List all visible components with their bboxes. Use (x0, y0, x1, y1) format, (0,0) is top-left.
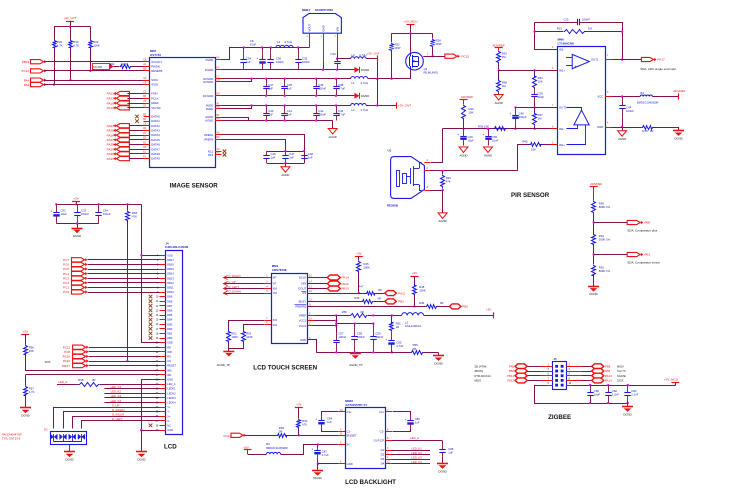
capacitor C41 1uF (284, 106, 286, 114)
ground AGND (PIR) (442, 190, 444, 213)
pin 1 VCC2 (308, 325, 314, 327)
resistor R38 1M (498, 70, 500, 79)
svg-text:D_RIGHT: D_RIGHT (112, 413, 125, 417)
pin 33 LEDK4 (160, 402, 166, 404)
svg-text:PC11: PC11 (63, 345, 71, 349)
svg-text:D2: D2 (44, 428, 48, 432)
svg-text:LED_A: LED_A (167, 382, 175, 386)
wire GND pin to bottom rail (308, 340, 317, 353)
svg-text:PWDN: PWDN (151, 65, 160, 69)
svg-text:F_UP: F_UP (112, 403, 119, 407)
wire DOVDD row C1 (222, 78, 351, 80)
pin C4 SIOC (144, 80, 150, 82)
svg-text:C23: C23 (563, 17, 569, 21)
svg-text:IN2-: IN2- (559, 127, 564, 131)
svg-text:AGND: AGND (484, 153, 492, 157)
svg-text:ADVREF: ADVREF (461, 95, 473, 99)
resistor R59 0R (EN) (244, 435, 276, 437)
wire R36 to IN2- row (463, 120, 465, 129)
wire drain to +3V_MCU (410, 33, 412, 52)
svg-text:X-: X- (167, 419, 170, 423)
power +5V (touch) (493, 312, 495, 318)
pin 5 DB14 (160, 273, 166, 275)
pin C3 HREF (144, 103, 150, 105)
pin 37 X- (160, 420, 166, 422)
svg-text:DGND: DGND (589, 292, 597, 296)
pin 24 CS (160, 361, 166, 363)
port PA11 (385, 291, 397, 296)
svg-text:DATA7: DATA7 (151, 147, 160, 151)
pin 27 IM1 (160, 374, 166, 376)
wire OUT2 row (515, 107, 557, 109)
port PB2 (zigbee left) (527, 371, 540, 373)
pin 4 DB15 (160, 269, 166, 271)
svg-text:VDD: VDD (167, 253, 173, 257)
svg-text:ZIGBEE: ZIGBEE (548, 414, 571, 421)
resistor R36 10K (462, 105, 466, 121)
wire R54 to EN row (298, 429, 300, 435)
svg-text:D_DOWN: D_DOWN (229, 289, 241, 293)
svg-text:IM0: IM0 (167, 368, 172, 372)
svg-text:PC1: PC1 (63, 286, 69, 290)
svg-text:GND: GND (597, 125, 603, 129)
wire DGND row F3 (222, 69, 355, 71)
capacitor C86 1uF (OUT) (442, 441, 444, 445)
svg-text:PB2: PB2 (509, 369, 515, 373)
svg-text:DGND: DGND (205, 68, 213, 72)
svg-text:+3V: +3V (73, 197, 78, 201)
wire feedback left vertical (535, 23, 558, 50)
pin 23 RS (160, 356, 166, 358)
port PA13 (DOUT) (308, 288, 328, 290)
resistor R58 0R (LED_A) (57, 384, 78, 386)
wire F_UP net (touch panel) (54, 408, 160, 429)
capacitor C44 100nF (622, 97, 624, 106)
svg-text:AVDD: AVDD (206, 107, 214, 111)
ground AGND_TP (touch caps) (350, 353, 361, 355)
svg-text:VCC: VCC (597, 95, 603, 99)
svg-text:100nF: 100nF (81, 212, 89, 216)
svg-text:DB5: DB5 (167, 313, 173, 317)
svg-text:FH26-39S-0.3SHW: FH26-39S-0.3SHW (165, 245, 189, 249)
svg-text:PA23: PA23 (107, 97, 114, 101)
svg-text:10K: 10K (531, 148, 536, 152)
pin D3 DATA7 (144, 149, 150, 151)
svg-text:LED_K4: LED_K4 (411, 460, 422, 464)
pin 13 DB6 (160, 310, 166, 312)
inductor L3 4.7uH (VIN feed) (337, 58, 351, 60)
svg-text:SDA, Comparator plus: SDA, Comparator plus (627, 229, 658, 233)
svg-text:PA21: PA21 (107, 92, 114, 96)
pin B2 VREFN (215, 139, 222, 141)
svg-text:GND: GND (300, 338, 306, 342)
svg-text:PB1: PB1 (645, 253, 651, 257)
pin 2 D2 (386, 454, 392, 456)
pin 30 LEDK1 (160, 388, 166, 390)
pin 31 LEDK2 (160, 393, 166, 395)
capacitor C38 4.7uF (336, 79, 338, 86)
svg-text:BMD3C314K500R: BMD3C314K500R (266, 446, 287, 450)
svg-text:DATA3: DATA3 (151, 129, 160, 133)
svg-text:VIN: VIN (335, 27, 339, 32)
capacitor C39 100nF (VIN) (337, 59, 339, 62)
pin 5 IN (339, 444, 345, 446)
pin 4 right (566, 371, 572, 373)
svg-text:NC: NC (167, 424, 171, 428)
svg-text:RE200B: RE200B (387, 204, 399, 208)
svg-text:LED_K3: LED_K3 (111, 394, 122, 398)
svg-text:VREFH: VREFH (204, 133, 213, 137)
pin B1 AGND (215, 117, 222, 119)
svg-text:DB17: DB17 (167, 258, 174, 262)
pin 39 GND (160, 430, 166, 432)
svg-text:DOUT: DOUT (298, 287, 306, 291)
svg-text:RESETB: RESETB (151, 69, 162, 73)
svg-text:BMD3C314K500R: BMD3C314K500R (637, 101, 658, 105)
power +3V (R54) (295, 407, 303, 409)
svg-text:CS: CS (302, 291, 306, 295)
svg-text:4.7K: 4.7K (57, 43, 63, 47)
svg-text:SC82FP1562: SC82FP1562 (315, 8, 333, 12)
svg-text:VDD: VDD (167, 341, 173, 345)
resistor R30 4.7K (70, 27, 72, 40)
pin 7 C2+ (386, 411, 392, 413)
resistor R43 47K (442, 171, 444, 174)
svg-text:DOGND: DOGND (203, 94, 213, 98)
pin 7 IN3 (265, 320, 271, 322)
capacitor C36 100nF (270, 48, 272, 60)
svg-text:DB13: DB13 (167, 276, 174, 280)
svg-text:R49: R49 (419, 301, 425, 305)
pin 1 (PIR drain) (424, 162, 430, 164)
svg-text:PA14: PA14 (342, 276, 349, 280)
pin D2 DATA3 (144, 130, 150, 132)
resistor R55 0R (gnd tie) (411, 351, 424, 355)
capacitor C40 1uF (266, 106, 268, 114)
svg-text:PC4: PC4 (63, 272, 69, 276)
pin 11 EN/SET (339, 435, 345, 437)
pin 9 DB10 (160, 292, 166, 294)
pin B5 DATA0 (144, 116, 150, 118)
port PB1 (comparator minus) (641, 253, 644, 256)
wire LED_K1 (backlight) (392, 450, 430, 452)
wire IN3 to R52 (229, 321, 265, 330)
port PA17 (654, 58, 657, 61)
pin 11 DB8 (160, 301, 166, 303)
wire R29 to SIOD net (54, 49, 56, 84)
pin 10 VCC1 (308, 320, 314, 322)
wire VOUT to rail (309, 38, 311, 48)
pin 1 OUT1 (605, 59, 611, 61)
svg-text:PB13: PB13 (22, 60, 30, 64)
pin 12 DOUT (308, 288, 314, 290)
capacitor C37 1uF (266, 79, 268, 86)
pin 38 NC (160, 425, 166, 427)
capacitor C84 1uF (C1 pump) (322, 412, 339, 416)
wire D_LEFT net (touch inputs) (224, 288, 265, 290)
ground AGND (C50) (484, 147, 493, 153)
ferrite B1 BMD3C314K500R (640, 95, 652, 97)
pin C6 DOVDD (215, 81, 222, 83)
svg-text:B3: B3 (266, 442, 270, 446)
svg-text:10uF: 10uF (61, 212, 68, 216)
svg-text:DGND: DGND (65, 458, 73, 462)
ground DGND (sensor row2) (354, 93, 359, 99)
svg-text:OUT/CP: OUT/CP (374, 438, 385, 442)
svg-text:4.7uF: 4.7uF (338, 87, 345, 91)
svg-text:PB2: PB2 (398, 300, 404, 304)
svg-text:PB14: PB14 (507, 374, 514, 378)
svg-text:AGND: AGND (495, 101, 503, 105)
svg-text:VREF: VREF (299, 314, 307, 318)
port PA9 (zigbee right) (572, 371, 581, 373)
svg-text:C39: C39 (331, 52, 337, 56)
pin 35 Y- (160, 411, 166, 413)
wire VREF cap column (336, 315, 338, 331)
pin F3 DGND (215, 69, 222, 71)
svg-text:CS: CS (167, 359, 171, 363)
pin 3 D1 (386, 450, 392, 452)
svg-text:X+: X+ (167, 414, 171, 418)
svg-text:FSIN: FSIN (151, 92, 157, 96)
pin 6 C2- (386, 431, 392, 433)
svg-text:PC12: PC12 (223, 434, 231, 438)
port PA12 (zigbee left) (527, 380, 540, 382)
svg-text:LEDK4: LEDK4 (167, 401, 176, 405)
svg-text:PA25: PA25 (107, 129, 114, 133)
pin 10 C1+ (339, 411, 345, 413)
pin 9 VREF (308, 315, 314, 317)
svg-text:0R: 0R (279, 430, 283, 434)
svg-text:100K: 100K (363, 266, 370, 270)
wire L3 to +5V (424, 315, 494, 317)
svg-text:DB1: DB1 (167, 332, 173, 336)
svg-text:PA17: PA17 (658, 58, 665, 62)
svg-text:1M: 1M (588, 26, 593, 30)
svg-text:R46: R46 (354, 296, 360, 300)
wire VREF cap top rail (267, 151, 304, 153)
svg-text:PA13: PA13 (605, 374, 612, 378)
svg-text:DB15: DB15 (167, 267, 174, 271)
svg-text:PC6: PC6 (63, 263, 69, 267)
svg-text:32CK: 32CK (617, 379, 624, 383)
inductor L3 10uH/100mA (402, 313, 424, 316)
svg-text:10uH/100mA: 10uH/100mA (405, 324, 421, 328)
power +3V_OVT tick (L2) (396, 102, 398, 108)
svg-text:0R: 0R (377, 297, 381, 301)
svg-text:DATA9: DATA9 (151, 157, 160, 161)
pin 1 D3 (386, 459, 392, 461)
capacitor C60 4.7uF (391, 332, 393, 341)
svg-text:PC10: PC10 (63, 355, 71, 359)
pin 15 CS (308, 293, 314, 295)
resistor R33 1M (497, 51, 501, 65)
wire GND to DGND row (323, 38, 325, 64)
svg-text:AGND: AGND (618, 137, 626, 141)
svg-text:DB6: DB6 (167, 309, 173, 313)
svg-text:47K: 47K (132, 215, 137, 219)
svg-text:100nF: 100nF (318, 87, 326, 91)
wire gate to PC15 (423, 56, 445, 58)
svg-text:4.7uF: 4.7uF (396, 344, 403, 348)
svg-text:PB0: PB0 (462, 305, 468, 309)
wire source to +3V_OVT (410, 70, 412, 79)
svg-text:DB2: DB2 (167, 327, 173, 331)
pin C6 DATA2 (144, 125, 150, 127)
svg-text:DGND: DGND (361, 94, 369, 98)
power +3V_OVT (image sensor pullups) (66, 21, 74, 23)
svg-text:ZB 14TNK: ZB 14TNK (475, 364, 487, 368)
pin 3 IN1+ (551, 70, 557, 72)
pin E3 DATA5 (144, 139, 150, 141)
pin 4 GND (339, 463, 345, 465)
svg-text:PA27: PA27 (107, 138, 114, 142)
svg-text:866K 1%: 866K 1% (599, 269, 611, 273)
pin 29 LED_A (160, 384, 166, 386)
svg-text:+3V_OVT: +3V_OVT (367, 52, 380, 56)
ground AGND (AVDD caps) (332, 121, 334, 129)
pin 9 C1- (339, 431, 345, 433)
svg-text:L4: L4 (277, 40, 281, 44)
svg-text:AGND: AGND (329, 135, 337, 139)
resistor R63 100K (90, 27, 92, 40)
svg-text:100nF: 100nF (626, 109, 634, 113)
pin A1 AVDD (215, 105, 222, 107)
wire C44 to GND row (622, 118, 624, 127)
svg-text:100nF: 100nF (338, 335, 346, 339)
wire touch cap top rail (336, 323, 373, 325)
svg-text:OV7740: OV7740 (150, 53, 161, 57)
svg-text:0R: 0R (92, 378, 96, 382)
pin 5 left (546, 375, 552, 377)
pin A3 NC1 (215, 151, 222, 153)
wire pullup rail (54, 26, 90, 28)
resistor R49 0R (426, 305, 438, 309)
svg-text:4.7K: 4.7K (73, 43, 79, 47)
wire OUT1 to PA17 (612, 59, 643, 61)
svg-text:4.7uH: 4.7uH (284, 40, 291, 44)
svg-text:1uF: 1uF (268, 113, 273, 117)
svg-text:PC10: PC10 (22, 69, 30, 73)
ground DGND (sensor row1) (354, 67, 359, 73)
svg-text:SCI0: SCI0 (45, 360, 51, 364)
wire VCC2 stub (314, 325, 336, 327)
svg-text:SDA, ADC single end input: SDA, ADC single end input (640, 67, 676, 71)
wire VCC row (612, 96, 641, 98)
svg-text:D_LEFT: D_LEFT (112, 417, 123, 421)
svg-text:DGND: DGND (434, 362, 442, 366)
resistor R34 10K (534, 70, 536, 74)
svg-text:0R: 0R (413, 347, 417, 351)
pin 25 RESET (160, 365, 166, 367)
pin 10 DB9 (160, 296, 166, 298)
capacitor C8 10uF (262, 48, 264, 60)
resistor R47 0R (365, 292, 377, 296)
svg-text:10pF: 10pF (594, 392, 601, 396)
pin 22 WR (160, 351, 166, 353)
svg-text:IN: IN (347, 443, 350, 447)
resistor R40 10K (IN2+) (529, 143, 543, 147)
svg-text:LT1496CN8: LT1496CN8 (558, 42, 574, 46)
svg-text:+3V: +3V (296, 402, 301, 406)
svg-text:100K: 100K (231, 335, 238, 339)
wire R37 to IN2- row (534, 126, 536, 129)
svg-text:GND: GND (347, 462, 353, 466)
port PA14 (DCLK) (308, 277, 328, 279)
svg-text:OUT1: OUT1 (591, 58, 599, 62)
pin F1 DATA9 (144, 158, 150, 160)
capacitor C35 100nF (298, 48, 300, 60)
wire PC10 to RESETB (44, 70, 144, 72)
svg-text:NRST: NRST (62, 364, 70, 368)
svg-text:VREFN: VREFN (204, 137, 213, 141)
svg-text:DB0: DB0 (167, 336, 173, 340)
port PA12 (DIN) (308, 283, 328, 285)
svg-text:100nF: 100nF (357, 335, 365, 339)
pin 5 YM (265, 293, 271, 295)
svg-text:DB3: DB3 (167, 322, 173, 326)
resistor R37 1M (534, 107, 536, 111)
port PB14 (zigbee left) (527, 375, 540, 377)
power +3V (NRST pullup) (21, 334, 29, 336)
wire BUSY row (308, 301, 361, 303)
svg-text:PA13: PA13 (342, 287, 349, 291)
wire LCD power rail (56, 204, 141, 206)
wire C39 to OUT2 row (534, 103, 536, 108)
capacitor C39 10pF (PIR) (534, 89, 536, 95)
svg-text:0R: 0R (378, 288, 382, 292)
port PA14 (zigbee right) (572, 380, 581, 382)
svg-text:DGND: DGND (438, 469, 446, 473)
svg-text:PB0: PB0 (645, 221, 651, 225)
ground DGND (divider) (593, 277, 595, 286)
svg-text:NGATE: NGATE (617, 374, 626, 378)
ground DGND (backlight) (317, 464, 319, 471)
pin B0 DATA1 (144, 121, 150, 123)
svg-text:J5: J5 (554, 357, 558, 361)
svg-text:R64: R64 (109, 62, 115, 66)
svg-text:PA11: PA11 (398, 291, 405, 295)
svg-text:PC7: PC7 (63, 258, 69, 262)
wire OVDD to top rail (222, 48, 309, 60)
svg-text:10K: 10K (29, 349, 34, 353)
resistor R21 1M (feedback) (535, 31, 563, 33)
pin 8 IN4 (265, 324, 271, 326)
pin 16 DCLK (308, 277, 314, 279)
svg-text:D_RIGHT: D_RIGHT (229, 274, 242, 278)
ground AGND (C49) (459, 147, 468, 153)
resistor R52 100K (227, 330, 231, 344)
pin 13 BUSY (308, 301, 314, 303)
svg-text:PIR SENSOR: PIR SENSOR (511, 192, 550, 199)
svg-text:DGND: DGND (93, 65, 103, 69)
svg-text:AGND: AGND (281, 173, 289, 177)
svg-text:4.7uH: 4.7uH (361, 81, 368, 85)
wire GND row (backlight) (318, 463, 339, 465)
svg-text:DOVDD: DOVDD (203, 80, 213, 84)
svg-text:MOSI: MOSI (617, 364, 624, 368)
svg-text:DGND: DGND (313, 476, 321, 480)
pin 5 IN2+ (551, 144, 557, 146)
wire LEDK4 net (104, 402, 159, 404)
svg-text:IMAGE SENSOR: IMAGE SENSOR (170, 183, 219, 190)
pin 2 (PIR source) (424, 170, 430, 172)
wire R18 to DGND (654, 127, 678, 129)
resistor R39 10K (494, 127, 508, 131)
svg-text:R18: R18 (642, 129, 648, 133)
resistor R54 67K (297, 419, 301, 430)
svg-text:+3V: +3V (412, 271, 417, 275)
